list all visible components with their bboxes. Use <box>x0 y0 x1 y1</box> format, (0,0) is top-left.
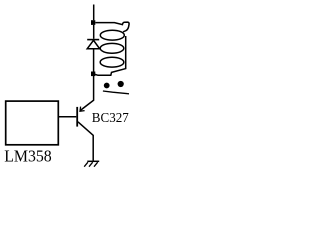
svg-text:BC327: BC327 <box>92 111 129 126</box>
svg-text:LM358: LM358 <box>4 147 52 166</box>
